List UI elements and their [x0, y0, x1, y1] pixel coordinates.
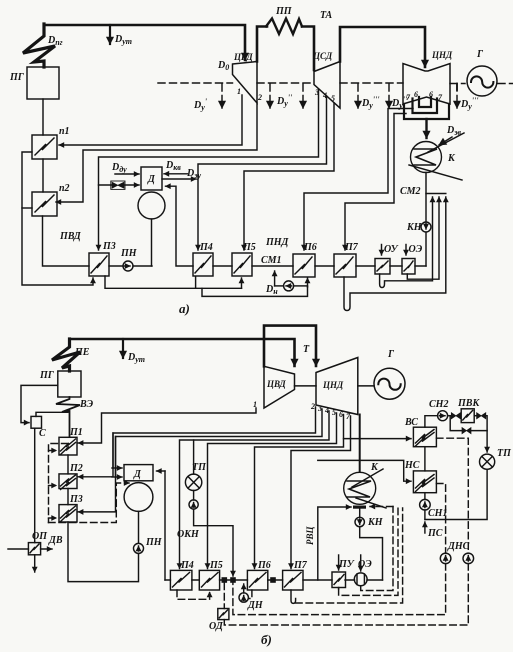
OU drain loop [380, 197, 433, 288]
ejector OEb circle [354, 573, 367, 586]
svg-text:ПНД: ПНД [265, 237, 290, 248]
P4b-P5b drain loop [177, 590, 210, 599]
svg-text:С: С [39, 428, 46, 439]
svg-text:СН2: СН2 [429, 399, 448, 410]
svg-text:КН: КН [367, 517, 384, 528]
svg-text:Dпг: Dпг [47, 35, 63, 47]
TPb circle-x [480, 454, 495, 469]
boiler PG box [27, 67, 59, 99]
steam stubs into Db left [112, 467, 122, 469]
extraction 7 to P7b [291, 416, 351, 569]
economizer VE zigzag [56, 397, 80, 437]
KNb to condensate line [360, 527, 383, 580]
svg-text:6: 6 [339, 410, 343, 419]
condensate into Db right [157, 470, 166, 472]
PVK bypass valve line [450, 416, 487, 431]
P6b drain to DN pump [249, 590, 252, 599]
dashed drains network [177, 438, 468, 625]
svg-text:П7: П7 [293, 560, 308, 571]
svg-text:ПГ: ПГ [9, 72, 25, 83]
svg-text:3: 3 [317, 404, 322, 413]
steam to OU [381, 245, 383, 256]
svg-text:Т: Т [303, 344, 310, 355]
svg-text:2: 2 [310, 402, 315, 411]
svg-text:П4: П4 [180, 560, 194, 571]
IP cylinder CSD [314, 62, 340, 109]
svg-text:Dут: Dут [114, 34, 132, 46]
svg-text:Д: Д [147, 174, 156, 185]
svg-text:ПП: ПП [275, 6, 293, 17]
LP heater P4b [170, 570, 192, 590]
upper net heater VS [413, 427, 436, 447]
bypass dashed PVD [49, 444, 69, 523]
VS to SN2 pump [425, 416, 437, 428]
svg-text:П6: П6 [257, 560, 271, 571]
svg-text:П6: П6 [303, 242, 317, 253]
condensate line b [165, 579, 383, 581]
svg-text:Г: Г [387, 349, 395, 360]
extraction 2 to P2 [78, 407, 315, 477]
drain line P4-P5-P6 bottom [196, 277, 242, 288]
svg-text:Dэу: Dэу [186, 168, 202, 180]
gland heater PU [332, 572, 346, 588]
steam arrow to OEb [360, 555, 362, 571]
svg-text:П3: П3 [102, 241, 116, 252]
svg-text:СМ2: СМ2 [400, 186, 421, 197]
feedwater b risers [67, 455, 69, 505]
svg-text:4: 4 [324, 406, 329, 415]
svg-text:П2: П2 [69, 463, 83, 474]
svg-text:Dкв: Dкв [165, 160, 181, 172]
feed pump PNb [138, 511, 140, 543]
svg-text:ТП: ТП [192, 462, 207, 473]
deaerator Db tank [124, 483, 153, 512]
svg-text:ЦНД: ЦНД [431, 50, 453, 60]
condenser K circle [411, 142, 442, 173]
Kb cooling diagonals [352, 469, 386, 508]
LP exhaust nested collectors [419, 97, 431, 107]
svg-text:П1: П1 [69, 427, 83, 438]
Dev arrow [439, 137, 452, 145]
extraction 6 to P6b [255, 415, 344, 569]
TP heat consumer branch [193, 440, 195, 474]
svg-text:Dу'': Dу'' [276, 93, 293, 108]
OP drain arrow [34, 555, 36, 572]
VS drain dashed via DNS2 [436, 438, 468, 553]
condenser Kb zigzag [347, 481, 371, 497]
valve before PVK [448, 415, 452, 417]
svg-text:ДН: ДН [247, 600, 264, 611]
HP heater P3b [59, 505, 77, 522]
feed line PNb to P3b [68, 522, 139, 582]
svg-text:ПВД: ПВД [59, 231, 82, 242]
heater P7 [334, 254, 356, 277]
svg-text:Dду: Dду [111, 162, 127, 174]
svg-text:ПВК: ПВК [457, 398, 480, 409]
svg-text:б): б) [261, 632, 272, 647]
heater P3 [89, 253, 109, 276]
OEb drain dashed [361, 507, 393, 591]
peak boiler PVK [461, 409, 474, 423]
main steam zigzag Dpg [23, 24, 55, 67]
condensate line P7-OU-OE [356, 265, 426, 267]
steam to NS heater [318, 460, 411, 481]
PU drain dashed [339, 508, 398, 595]
drain cooler OD [218, 609, 229, 620]
svg-text:2: 2 [257, 93, 262, 102]
reheater PP zigzag [266, 19, 302, 35]
junction squares [222, 577, 276, 583]
LP cylinder CND-b [316, 358, 358, 415]
blowdown cooler OP [28, 543, 40, 555]
svg-text:ЦСД: ЦСД [312, 51, 333, 61]
svg-text:ОЭ: ОЭ [409, 244, 423, 255]
extraction 1 to P1 [78, 408, 256, 443]
extraction 5 line to P5 [244, 103, 334, 250]
extraction 7 line to P7 [345, 114, 406, 251]
drain cooler OD dashed links [223, 583, 225, 609]
P7 drain loop to SM2 [344, 197, 446, 311]
svg-text:6: 6 [414, 90, 418, 99]
NS drain dashed via DNS1 [436, 484, 445, 554]
OP water line DV [8, 548, 52, 550]
svg-text:5: 5 [332, 408, 336, 417]
svg-text:1: 1 [237, 87, 241, 96]
drain pump Dn and SM1 riser [274, 271, 276, 286]
drain pump DN [243, 584, 245, 593]
svg-text:ВС: ВС [404, 417, 418, 428]
svg-text:а): а) [179, 301, 190, 316]
condensate pump KNb [359, 509, 361, 517]
HP heater P1b [59, 437, 77, 455]
heater P6 [293, 254, 315, 277]
condensate line P6-P7 [315, 265, 334, 267]
steam arrow to PU [338, 555, 340, 570]
generator G-b [374, 368, 405, 399]
svg-text:Dу''': Dу''' [460, 96, 479, 111]
network pump SN1 [424, 493, 426, 500]
LP heater P7b [283, 570, 303, 590]
svg-text:ПН: ПН [120, 248, 138, 259]
svg-text:СМ1: СМ1 [261, 255, 282, 266]
extraction 4 to P4b [180, 411, 330, 569]
network pump SN2 [438, 411, 448, 421]
main condensate riser to Db [164, 471, 166, 580]
makeup PS arrow [424, 522, 426, 533]
svg-text:ПН: ПН [145, 537, 163, 548]
LP heater P6b [247, 570, 267, 590]
svg-text:ПУ: ПУ [338, 559, 355, 570]
extraction numbers a [237, 87, 443, 103]
svg-text:Д: Д [133, 469, 142, 480]
TP circle-x [185, 474, 201, 490]
generator sine [471, 76, 493, 87]
shafts [295, 385, 375, 387]
extraction numbers b [253, 400, 351, 421]
Deu arrow out of D [162, 178, 196, 180]
main steam line to HP turbine [44, 25, 245, 60]
drains cascade left column [22, 152, 93, 285]
S steam to feed line [36, 412, 68, 416]
svg-text:П5: П5 [242, 242, 256, 253]
condensate pump KN [421, 222, 431, 232]
svg-text:РВЦ: РВЦ [305, 525, 315, 545]
svg-text:Dут: Dут [127, 352, 145, 364]
feedwater PG-p1-p2 [42, 99, 44, 135]
LP cylinder CND double flow [403, 64, 450, 105]
HP heater p2 [32, 192, 57, 216]
Dkv arrow into D [164, 173, 188, 175]
svg-text:ТА: ТА [320, 10, 332, 21]
HP cylinder CVD [233, 62, 258, 104]
svg-text:К: К [447, 153, 456, 164]
TPb return to SN1 [425, 469, 487, 519]
cold reheat riser [257, 27, 267, 62]
svg-text:Dу': Dу' [193, 97, 208, 112]
svg-text:ОП: ОП [32, 531, 48, 542]
svg-text:П5: П5 [209, 560, 223, 571]
extraction 3 line to P3 [99, 89, 319, 250]
extraction 2 line to p2 [56, 103, 257, 202]
valve line into D [99, 184, 140, 186]
deaerator tank circle [138, 192, 165, 219]
steam to OE [405, 245, 407, 256]
svg-text:ПС: ПС [427, 528, 443, 539]
svg-text:ОКН: ОКН [177, 529, 200, 540]
deaerator head D box [141, 167, 162, 190]
HP heater p1 [32, 135, 57, 159]
svg-text:П3: П3 [69, 494, 83, 505]
svg-text:Dу''': Dу''' [361, 95, 380, 110]
labels Du' Du'' etc [193, 93, 479, 112]
heater P5 [232, 253, 252, 276]
deaerator Db box [124, 465, 153, 481]
LP heater P5b [199, 570, 219, 590]
boiler PG-b box [58, 371, 81, 397]
condensate line P4-P5 [213, 265, 232, 267]
steam to VS heater [344, 438, 412, 440]
svg-text:ЦНД: ЦНД [322, 380, 344, 390]
svg-text:ЦВД: ЦВД [233, 52, 254, 62]
svg-text:5: 5 [331, 94, 335, 103]
svg-text:ПЕ: ПЕ [74, 347, 90, 358]
valve symbol [111, 181, 125, 189]
IP exhaust crossover to LP [340, 27, 425, 67]
condensate line P5-P6 [252, 265, 293, 267]
P3b drain dashed to Db [49, 483, 130, 523]
extraction 3 to P3b [78, 409, 322, 512]
condenser zigzag [414, 149, 437, 165]
extraction 6 line to P6 [304, 109, 413, 251]
svg-text:Dэв: Dэв [446, 125, 462, 137]
svg-text:ДВ: ДВ [48, 535, 63, 546]
lower net heater NS [413, 471, 436, 493]
condenser inlet arrow [425, 119, 427, 138]
dashed extraction header [158, 83, 513, 108]
svg-text:СН1: СН1 [428, 508, 447, 519]
Ddu arrow into D [115, 173, 139, 175]
svg-text:7: 7 [438, 93, 443, 102]
main steam line b [70, 339, 295, 366]
extraction 5 to P5b [208, 413, 337, 569]
SM2 connector [426, 193, 446, 195]
svg-text:НС: НС [404, 460, 420, 471]
svg-text:ОД: ОД [209, 621, 224, 632]
OKN pump [193, 491, 195, 501]
DNS pumps [440, 553, 451, 564]
leak Dut-b [122, 339, 124, 358]
svg-text:ТП: ТП [497, 448, 512, 459]
separator S box [31, 416, 42, 428]
svg-text:ВЭ: ВЭ [79, 399, 94, 410]
svg-text:Dу''': Dу''' [391, 95, 410, 110]
hot reheat to IP [302, 27, 314, 71]
P7b drain hook [291, 590, 296, 603]
svg-text:Г: Г [476, 49, 484, 60]
NS-VS connector [424, 447, 426, 471]
PG blowdown to S [21, 385, 58, 422]
svg-text:D0: D0 [217, 60, 229, 72]
valve after PVK [474, 415, 476, 417]
generator G circle [467, 66, 497, 96]
svg-text:П7: П7 [344, 242, 359, 253]
feedwater p2 to P3 riser [43, 216, 90, 266]
OKN return line [194, 509, 233, 576]
drains dashed into hotwell [370, 506, 393, 508]
S drain down [34, 428, 36, 542]
feed pump PN [123, 261, 133, 271]
extraction 4 line to P4 [198, 96, 327, 250]
svg-text:п1: п1 [59, 126, 70, 137]
svg-text:П4: П4 [199, 242, 213, 253]
HP heater P2b [59, 474, 77, 489]
PU drain hook [338, 588, 340, 590]
cooling water diagonals [428, 133, 464, 152]
OE drain [407, 197, 439, 279]
recirculation line RVC [318, 507, 351, 580]
HP cylinder CVD-b [264, 366, 295, 408]
svg-text:ДНС: ДНС [447, 541, 470, 552]
P3 drain to P4 [105, 276, 196, 288]
svg-text:ЦВД: ЦВД [266, 379, 287, 389]
feed line deaerator-PN-P3 [109, 265, 152, 267]
gland cooler OU [375, 259, 390, 275]
svg-text:ПГ: ПГ [39, 370, 55, 381]
hotwell bar [353, 506, 366, 509]
svg-text:п2: п2 [59, 183, 70, 194]
condensate main K-KN [425, 173, 427, 267]
condenser Kb inlet [359, 415, 361, 473]
ejector cooler OE [402, 259, 415, 275]
crossover CVD-CND [264, 326, 316, 367]
svg-text:ОУ: ОУ [384, 244, 399, 255]
heater P4 [193, 253, 213, 276]
svg-text:КН: КН [406, 222, 423, 233]
condenser Kb circle [344, 472, 376, 504]
main condensate P4 to D riser [166, 186, 194, 266]
leak arrow Dut [109, 25, 111, 44]
superheater PE zigzag [52, 339, 80, 371]
extraction 1 line to p1 [59, 95, 242, 145]
supply to TPb [486, 416, 487, 452]
